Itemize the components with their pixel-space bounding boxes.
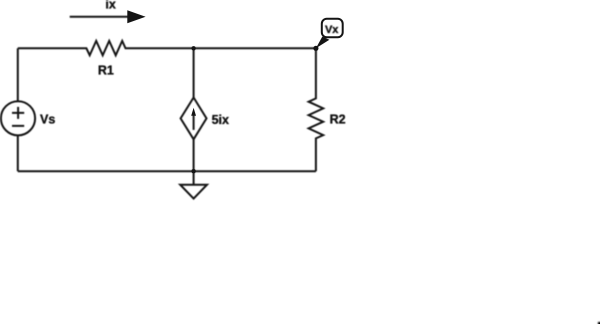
svg-text:R2: R2 xyxy=(330,113,346,127)
svg-text:Vx: Vx xyxy=(325,24,339,36)
svg-text:ix: ix xyxy=(105,0,115,12)
svg-text:Vs: Vs xyxy=(40,113,55,127)
svg-text:R1: R1 xyxy=(98,64,114,78)
svg-text:5ix: 5ix xyxy=(212,113,229,127)
